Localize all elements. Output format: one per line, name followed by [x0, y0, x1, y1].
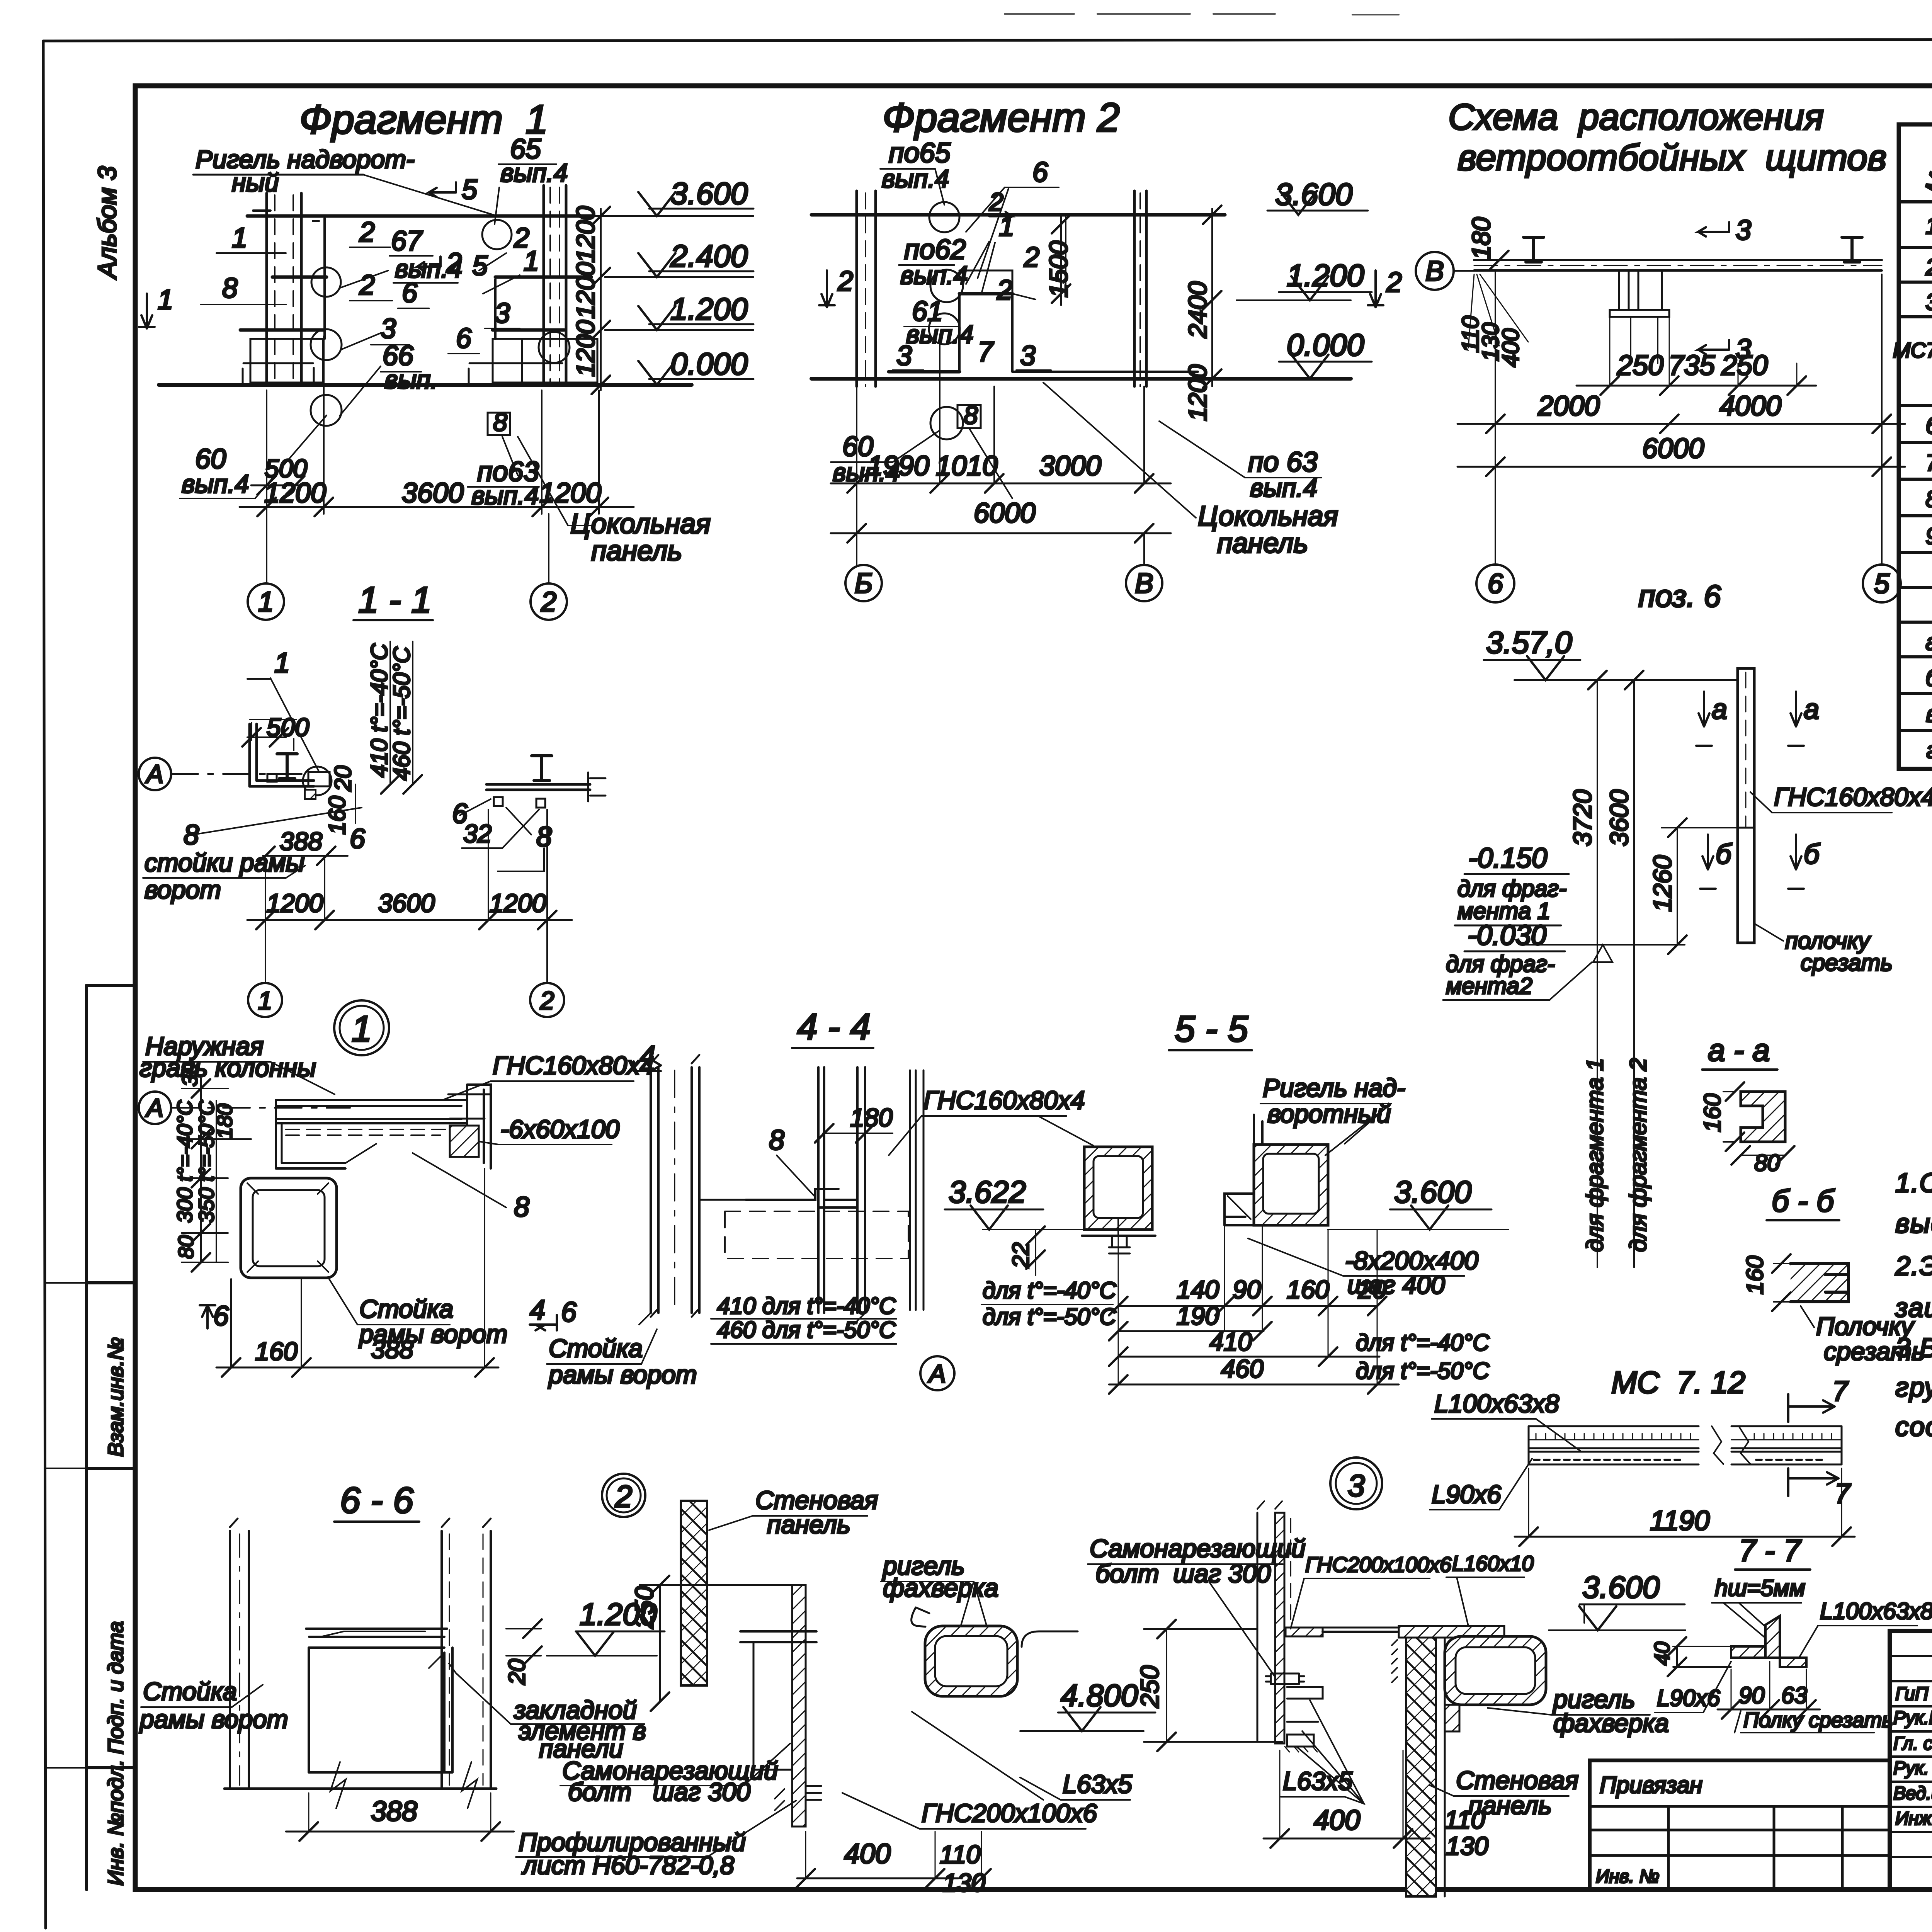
svg-text:388: 388 — [280, 827, 322, 855]
svg-text:вып.4: вып.4 — [471, 481, 539, 510]
svg-text:6000: 6000 — [974, 498, 1036, 529]
svg-text:410 t°=-40°C: 410 t°=-40°C — [366, 643, 392, 777]
svg-text:2: 2 — [1024, 242, 1039, 273]
svg-text:мента2: мента2 — [1446, 973, 1532, 999]
svg-text:а - а: а - а — [1708, 1033, 1770, 1067]
svg-text:А: А — [145, 1094, 163, 1122]
svg-text:2000: 2000 — [1537, 391, 1600, 422]
svg-text:б: б — [1804, 839, 1820, 870]
svg-text:1: 1 — [524, 246, 539, 277]
svg-text:2: 2 — [615, 1479, 633, 1514]
svg-text:3.600: 3.600 — [670, 176, 748, 211]
svg-text:6: 6 — [1032, 157, 1048, 188]
svg-text:3000: 3000 — [1039, 451, 1101, 481]
svg-text:Полку срезать: Полку срезать — [1743, 1708, 1893, 1732]
svg-text:ГНС160х80х4: ГНС160х80х4 — [493, 1051, 654, 1080]
svg-text:1200: 1200 — [490, 889, 546, 917]
svg-text:МС 7. 12: МС 7. 12 — [1611, 1365, 1745, 1400]
svg-text:для t°=-50°C: для t°=-50°C — [1356, 1358, 1490, 1384]
svg-text:болт шаг 300: болт шаг 300 — [568, 1777, 750, 1806]
svg-text:160: 160 — [1699, 1094, 1725, 1132]
svg-text:8: 8 — [222, 273, 238, 304]
svg-text:-6х60х100: -6х60х100 — [500, 1115, 620, 1143]
svg-text:рамы ворот: рамы ворот — [139, 1705, 288, 1733]
svg-text:Фрагмент 2: Фрагмент 2 — [883, 95, 1120, 140]
svg-text:срезать: срезать — [1801, 950, 1893, 976]
svg-text:по62: по62 — [904, 234, 966, 265]
svg-text:Цокольная: Цокольная — [1198, 501, 1338, 532]
svg-text:190: 190 — [1177, 1301, 1219, 1330]
svg-text:6 - 6: 6 - 6 — [340, 1480, 413, 1521]
svg-text:Б: Б — [855, 568, 873, 599]
svg-text:Полочку: Полочку — [1816, 1312, 1915, 1340]
svg-text:1200: 1200 — [539, 478, 601, 509]
svg-text:поз. 6: поз. 6 — [1638, 579, 1721, 613]
svg-text:Стойка: Стойка — [549, 1334, 643, 1362]
svg-text:3: 3 — [1020, 340, 1036, 371]
svg-text:по65: по65 — [889, 138, 951, 168]
svg-text:1200: 1200 — [571, 262, 600, 319]
svg-text:3: 3 — [896, 340, 912, 371]
svg-text:Ригель над-: Ригель над- — [1263, 1073, 1405, 1102]
svg-text:3.57,0: 3.57,0 — [1486, 625, 1572, 660]
svg-text:-0.030: -0.030 — [1468, 920, 1546, 951]
svg-text:лист Н60-782-0,8: лист Н60-782-0,8 — [521, 1851, 734, 1879]
svg-text:панель: панель — [1217, 528, 1308, 559]
svg-text:160: 160 — [324, 796, 350, 835]
svg-text:для t°=-40°C: для t°=-40°C — [1356, 1330, 1490, 1355]
svg-text:фахверка: фахверка — [1553, 1709, 1669, 1737]
svg-text:4: 4 — [530, 1295, 545, 1326]
svg-text:6: 6 — [456, 323, 472, 354]
svg-text:фахверка: фахверка — [883, 1573, 998, 1602]
svg-text:2: 2 — [837, 266, 853, 297]
svg-text:6: 6 — [350, 823, 366, 854]
svg-text:6: 6 — [1925, 413, 1932, 439]
svg-text:г: г — [1926, 737, 1932, 763]
svg-text:2.400: 2.400 — [670, 239, 748, 273]
svg-text:3: 3 — [1736, 215, 1751, 246]
svg-text:63: 63 — [1781, 1682, 1807, 1708]
svg-text:2: 2 — [359, 217, 375, 248]
svg-text:7: 7 — [1925, 450, 1932, 476]
svg-text:7: 7 — [978, 337, 994, 367]
svg-text:а: а — [1925, 629, 1932, 655]
svg-text:L100х63х8: L100х63х8 — [1434, 1389, 1559, 1418]
svg-text:5: 5 — [462, 174, 478, 205]
svg-text:для фрагмента 2: для фрагмента 2 — [1625, 1058, 1651, 1252]
svg-text:Рук.Бр.: Рук.Бр. — [1893, 1708, 1932, 1728]
svg-text:1200: 1200 — [264, 478, 326, 509]
svg-text:4000: 4000 — [1719, 391, 1781, 422]
svg-text:Ригель надворот-: Ригель надворот- — [196, 145, 415, 173]
svg-text:б - б: б - б — [1772, 1184, 1835, 1218]
svg-text:1: 1 — [274, 648, 290, 679]
svg-text:8: 8 — [514, 1192, 529, 1223]
svg-text:ГиП: ГиП — [1895, 1684, 1929, 1704]
svg-text:1: 1 — [352, 1009, 372, 1049]
svg-text:460: 460 — [1221, 1354, 1264, 1383]
svg-text:Альбом 3: Альбом 3 — [93, 166, 121, 280]
svg-text:ГНС160х80х4: ГНС160х80х4 — [1774, 782, 1932, 811]
svg-text:735: 735 — [1668, 350, 1715, 381]
svg-text:32: 32 — [463, 819, 492, 848]
svg-text:4: 4 — [640, 1041, 655, 1071]
svg-text:5: 5 — [1874, 568, 1890, 599]
svg-text:6: 6 — [402, 277, 418, 308]
svg-text:8: 8 — [769, 1125, 784, 1156]
svg-text:350 t°=-50°C: 350 t°=-50°C — [194, 1100, 218, 1223]
svg-text:1200: 1200 — [1183, 364, 1212, 421]
svg-text:130: 130 — [1446, 1832, 1488, 1860]
svg-text:вып.: вып. — [384, 365, 438, 394]
svg-text:1: 1 — [258, 986, 272, 1015]
svg-text:В: В — [1425, 256, 1444, 287]
svg-text:2: 2 — [541, 587, 556, 617]
svg-text:Привязан: Привязан — [1600, 1772, 1702, 1798]
svg-text:7: 7 — [1835, 1478, 1851, 1509]
svg-text:7: 7 — [1832, 1376, 1849, 1407]
svg-text:а: а — [1712, 694, 1727, 725]
svg-text:Инв. №: Инв. № — [1596, 1866, 1659, 1887]
svg-text:1200: 1200 — [571, 206, 600, 263]
svg-text:3: 3 — [495, 298, 510, 329]
svg-text:1.200: 1.200 — [670, 292, 748, 326]
svg-text:2: 2 — [989, 187, 1003, 216]
svg-text:3: 3 — [1925, 289, 1932, 315]
svg-text:Инж.: Инж. — [1895, 1808, 1932, 1829]
svg-text:2: 2 — [1925, 254, 1932, 280]
svg-text:группы I и окрасить эмалями ПФ: группы I и окрасить эмалями ПФ-1126 по Т… — [1895, 1372, 1932, 1402]
svg-text:250: 250 — [1721, 350, 1768, 381]
svg-text:для t°=-50°C: для t°=-50°C — [983, 1304, 1116, 1330]
svg-text:1190: 1190 — [1650, 1505, 1710, 1536]
svg-text:90: 90 — [1739, 1682, 1765, 1708]
svg-text:Взам.инв.№: Взам.инв.№ — [104, 1337, 128, 1457]
svg-text:болт шаг 300: болт шаг 300 — [1095, 1559, 1271, 1588]
svg-text:hш=5мм: hш=5мм — [1715, 1575, 1805, 1601]
svg-text:8: 8 — [964, 401, 978, 429]
svg-text:Самонарезающий: Самонарезающий — [1090, 1534, 1306, 1563]
svg-text:3: 3 — [381, 313, 396, 344]
svg-text:2: 2 — [359, 270, 375, 301]
svg-text:400: 400 — [1314, 1805, 1360, 1836]
svg-text:панель: панель — [591, 536, 682, 566]
svg-text:3.600: 3.600 — [1394, 1175, 1471, 1209]
svg-text:ГНС200х100х6: ГНС200х100х6 — [1305, 1553, 1452, 1577]
svg-text:3720: 3720 — [1568, 789, 1597, 846]
svg-text:по 63: по 63 — [1248, 447, 1318, 478]
svg-text:L100х63х8: L100х63х8 — [1820, 1598, 1932, 1624]
svg-text:6: 6 — [213, 1301, 229, 1332]
svg-text:соответствии со СНиП 8.03.11-8: соответствии со СНиП 8.03.11-85, приложе… — [1895, 1412, 1932, 1442]
svg-text:ворот: ворот — [145, 875, 221, 904]
svg-text:б: б — [1716, 839, 1732, 870]
svg-text:1 - 1: 1 - 1 — [358, 580, 432, 621]
svg-text:130: 130 — [943, 1868, 985, 1897]
svg-text:L90х6: L90х6 — [1432, 1480, 1501, 1509]
svg-text:140: 140 — [1177, 1275, 1219, 1304]
svg-text:а: а — [1804, 694, 1819, 725]
svg-text:0.000: 0.000 — [670, 347, 748, 381]
svg-text:А: А — [927, 1359, 946, 1388]
svg-text:Вед.инж.: Вед.инж. — [1893, 1783, 1932, 1804]
svg-text:грань колонны: грань колонны — [139, 1053, 316, 1082]
svg-text:1260: 1260 — [1648, 855, 1677, 912]
svg-text:б: б — [1925, 665, 1932, 691]
svg-text:160: 160 — [255, 1337, 298, 1366]
svg-text:ветроотбойных щитов: ветроотбойных щитов — [1458, 137, 1887, 178]
svg-text:7 - 7: 7 - 7 — [1739, 1533, 1802, 1568]
svg-text:рамы ворот: рамы ворот — [359, 1320, 508, 1348]
svg-text:2.Элементы крепления профилиро: 2.Элементы крепления профилированного на… — [1895, 1251, 1932, 1281]
svg-text:3.600: 3.600 — [1582, 1570, 1660, 1604]
svg-text:А: А — [145, 760, 163, 788]
svg-text:-0.150: -0.150 — [1468, 843, 1547, 874]
svg-text:3: 3 — [1348, 1468, 1365, 1503]
svg-text:для фраг-: для фраг- — [1458, 876, 1566, 901]
svg-text:6: 6 — [1488, 568, 1503, 599]
svg-text:рамы ворот: рамы ворот — [548, 1360, 697, 1389]
svg-text:1.200: 1.200 — [1287, 258, 1364, 293]
svg-text:160: 160 — [1742, 1256, 1768, 1294]
svg-text:2: 2 — [997, 275, 1012, 306]
svg-text:400: 400 — [1498, 328, 1524, 367]
svg-text:110: 110 — [940, 1840, 981, 1869]
svg-text:388: 388 — [371, 1796, 417, 1827]
svg-text:Цокольная: Цокольная — [570, 509, 711, 539]
svg-text:ГНС200х100х6: ГНС200х100х6 — [922, 1799, 1097, 1827]
svg-text:1: 1 — [158, 284, 173, 315]
svg-text:8: 8 — [184, 820, 199, 850]
svg-text:2: 2 — [540, 986, 554, 1015]
svg-text:1990: 1990 — [867, 451, 929, 481]
svg-text:8: 8 — [1925, 486, 1932, 512]
svg-text:30: 30 — [178, 1063, 202, 1087]
svg-text:3600: 3600 — [1605, 789, 1633, 846]
svg-text:5 - 5: 5 - 5 — [1175, 1009, 1248, 1049]
svg-text:6: 6 — [561, 1297, 577, 1328]
svg-text:160: 160 — [1287, 1275, 1329, 1304]
svg-text:ный: ный — [232, 168, 279, 197]
svg-text:3.622: 3.622 — [949, 1175, 1026, 1209]
svg-text:410: 410 — [1209, 1327, 1252, 1356]
svg-text:вып.4: вып.4 — [182, 469, 249, 498]
svg-text:в: в — [1926, 701, 1932, 727]
svg-text:ГНС160х80х4: ГНС160х80х4 — [923, 1086, 1085, 1114]
svg-text:250: 250 — [1135, 1665, 1164, 1708]
svg-text:Стеновая: Стеновая — [1456, 1766, 1578, 1794]
svg-text:1: 1 — [1925, 213, 1932, 239]
svg-text:L160х10: L160х10 — [1452, 1551, 1534, 1575]
svg-text:2400: 2400 — [1183, 281, 1212, 338]
svg-text:6000: 6000 — [1642, 433, 1704, 464]
svg-text:67: 67 — [391, 226, 423, 257]
svg-text:L63х5: L63х5 — [1283, 1767, 1352, 1795]
svg-text:Схема расположения: Схема расположения — [1448, 97, 1824, 138]
svg-text:20: 20 — [330, 765, 356, 792]
svg-text:В: В — [1135, 568, 1153, 599]
svg-text:1200: 1200 — [571, 320, 600, 377]
svg-text:90: 90 — [1233, 1275, 1261, 1304]
svg-text:1500: 1500 — [1044, 241, 1073, 298]
svg-text:Рук. гр.: Рук. гр. — [1893, 1758, 1932, 1779]
svg-text:110: 110 — [1444, 1805, 1485, 1834]
svg-text:400: 400 — [844, 1838, 891, 1869]
svg-text:Инв. №подл.: Инв. №подл. — [104, 1760, 128, 1886]
svg-text:460 для t°=-50°C: 460 для t°=-50°C — [717, 1317, 896, 1343]
svg-text:410 для t°=-40°C: 410 для t°=-40°C — [717, 1293, 896, 1319]
svg-text:4 - 4: 4 - 4 — [797, 1007, 871, 1048]
svg-text:300 t°=-40°C: 300 t°=-40°C — [173, 1100, 197, 1223]
svg-text:180: 180 — [1467, 217, 1495, 260]
svg-text:3600: 3600 — [402, 478, 464, 509]
svg-text:1200: 1200 — [267, 889, 323, 917]
svg-text:для t°=-40°C: для t°=-40°C — [983, 1277, 1116, 1303]
svg-text:Стойка: Стойка — [359, 1294, 453, 1323]
svg-text:L63х5: L63х5 — [1063, 1770, 1132, 1798]
svg-text:460 t°=-50°C: 460 t°=-50°C — [389, 646, 415, 781]
svg-text:1.Сварные швы выполнять электр: 1.Сварные швы выполнять электродами Э-42… — [1895, 1168, 1932, 1198]
svg-text:панель: панель — [767, 1510, 850, 1539]
svg-text:срезать: срезать — [1824, 1337, 1925, 1366]
svg-text:высота шва 6 мм.: высота шва 6 мм. — [1895, 1208, 1932, 1238]
svg-text:9: 9 — [1925, 523, 1932, 549]
svg-text:вып.4: вып.4 — [500, 158, 568, 187]
svg-text:3600: 3600 — [378, 889, 435, 917]
svg-text:Гл. спец.: Гл. спец. — [1893, 1733, 1932, 1754]
svg-text:воротный: воротный — [1267, 1099, 1391, 1128]
svg-text:2: 2 — [1386, 267, 1402, 298]
svg-text:Марка: Марка — [1920, 123, 1932, 197]
svg-text:1: 1 — [258, 587, 274, 617]
svg-text:8: 8 — [493, 408, 507, 436]
svg-text:1: 1 — [232, 223, 247, 253]
svg-text:250: 250 — [1617, 350, 1663, 381]
svg-text:для фрагмента 1: для фрагмента 1 — [1582, 1058, 1608, 1252]
svg-text:Стойка: Стойка — [143, 1677, 237, 1706]
svg-text:МС7.12: МС7.12 — [1893, 338, 1932, 362]
svg-text:Подп. и дата: Подп. и дата — [104, 1621, 128, 1754]
